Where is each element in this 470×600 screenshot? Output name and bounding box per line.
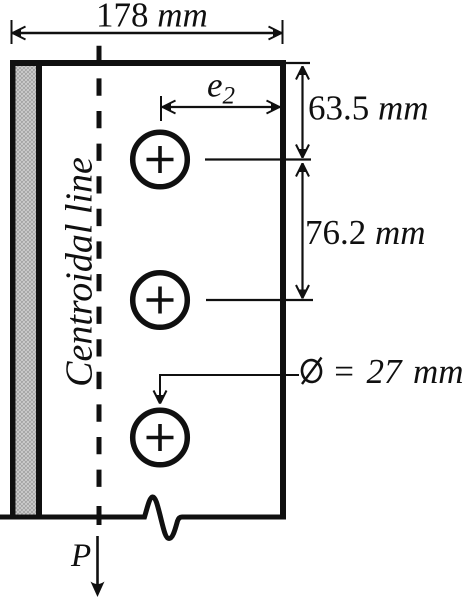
- dimension 178mm: right arrowhead: [269, 27, 282, 40]
- plate left edge: [10, 60, 16, 517]
- svg-text:P: P: [70, 538, 91, 574]
- load arrow P stem: [96, 536, 99, 586]
- dimension e2: left arrowhead: [163, 101, 176, 114]
- svg-text:76.2 mm: 76.2 mm: [305, 213, 426, 252]
- dimension e2: line: [162, 106, 280, 108]
- extension line from hole 2: [206, 299, 313, 301]
- dimension 178mm: right tick: [282, 20, 284, 44]
- load arrow P head: [91, 582, 105, 598]
- hole 2 circle: [133, 273, 188, 328]
- dimension 76.2: line: [301, 163, 303, 299]
- dimension 63.5: line: [301, 66, 303, 158]
- svg-text:63.5 mm: 63.5 mm: [308, 89, 429, 128]
- svg-text:=27mm: =27mm: [332, 352, 464, 391]
- dimension 178mm: line: [11, 32, 283, 34]
- dimension 63.5: bottom arrowhead: [296, 145, 309, 158]
- hole 2 cross: [147, 287, 174, 314]
- svg-text:178 mm: 178 mm: [96, 0, 208, 35]
- svg-text:Centroidal line: Centroidal line: [59, 157, 101, 387]
- plate bottom edge with break: [0, 497, 286, 539]
- dimension 178mm: left tick: [11, 20, 13, 44]
- extension line top right for 63.5: [286, 62, 310, 64]
- plate top edge: [10, 60, 286, 66]
- label diameter symbol: [301, 358, 323, 385]
- hole 1 circle: [133, 132, 188, 187]
- dimension 76.2: bottom arrowhead: [296, 285, 309, 298]
- dimension 76.2: top arrowhead: [296, 164, 309, 177]
- plate right edge: [280, 60, 286, 520]
- plate inner left line: [36, 60, 42, 517]
- hole 1 cross: [147, 146, 174, 173]
- centroidal line dash crossing bottom edge: [97, 506, 102, 525]
- dimension 63.5: top arrowhead: [296, 67, 309, 80]
- centroidal dashed line: [97, 46, 102, 500]
- leader line for hole diameter: [160, 375, 299, 402]
- extension line from hole 1: [205, 158, 311, 160]
- hole 3 circle: [133, 410, 188, 465]
- hole 3 cross: [147, 424, 174, 451]
- dimension e2: tick: [160, 96, 162, 121]
- leader arrowhead: [154, 391, 167, 404]
- dimension 178mm: left arrowhead: [13, 27, 26, 40]
- dimension e2: right arrowhead: [267, 101, 280, 114]
- plate hatched strip: [16, 66, 37, 515]
